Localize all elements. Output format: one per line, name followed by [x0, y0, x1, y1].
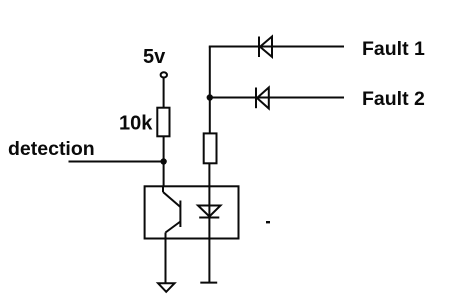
terminal 5v — [161, 72, 167, 77]
LED D3 inside opto — [198, 206, 221, 218]
node: fault2 junction — [207, 94, 213, 100]
label detection — [8, 138, 95, 160]
wire: R2 to LED — [208, 163, 210, 217]
optocoupler U1 box — [145, 186, 239, 238]
label Fault 2 — [362, 88, 425, 110]
resistor R2 — [204, 133, 217, 163]
wire: LED cathode to ground — [208, 218, 210, 283]
wire: Q1 emitter to ground — [165, 233, 167, 284]
svg-text:detection: detection — [8, 138, 95, 160]
node: detection junction — [160, 158, 166, 164]
wire: detection input — [69, 161, 164, 163]
wire: fault 1 line — [209, 46, 344, 48]
ground right (bar) — [200, 282, 217, 284]
diode D2 — [256, 88, 269, 109]
label Fault 1 — [362, 38, 425, 60]
wire: fault 2 line — [210, 97, 344, 99]
svg-text:Fault 1: Fault 1 — [362, 38, 425, 60]
svg-text:Fault 2: Fault 2 — [362, 88, 425, 110]
label 10k — [119, 112, 153, 134]
wire: R1 to opto box — [163, 136, 165, 187]
svg-text:10k: 10k — [119, 112, 153, 134]
wire: right branch vertical — [209, 47, 211, 134]
wire: 5v terminal to R1 — [163, 78, 165, 108]
ground left (arrow) — [158, 283, 174, 292]
diode D1 — [259, 37, 272, 58]
stray mark — [266, 221, 270, 223]
label 5v — [143, 46, 166, 68]
resistor R1 10k — [157, 108, 169, 137]
phototransistor Q1 — [163, 186, 180, 232]
svg-text:5v: 5v — [143, 46, 166, 68]
